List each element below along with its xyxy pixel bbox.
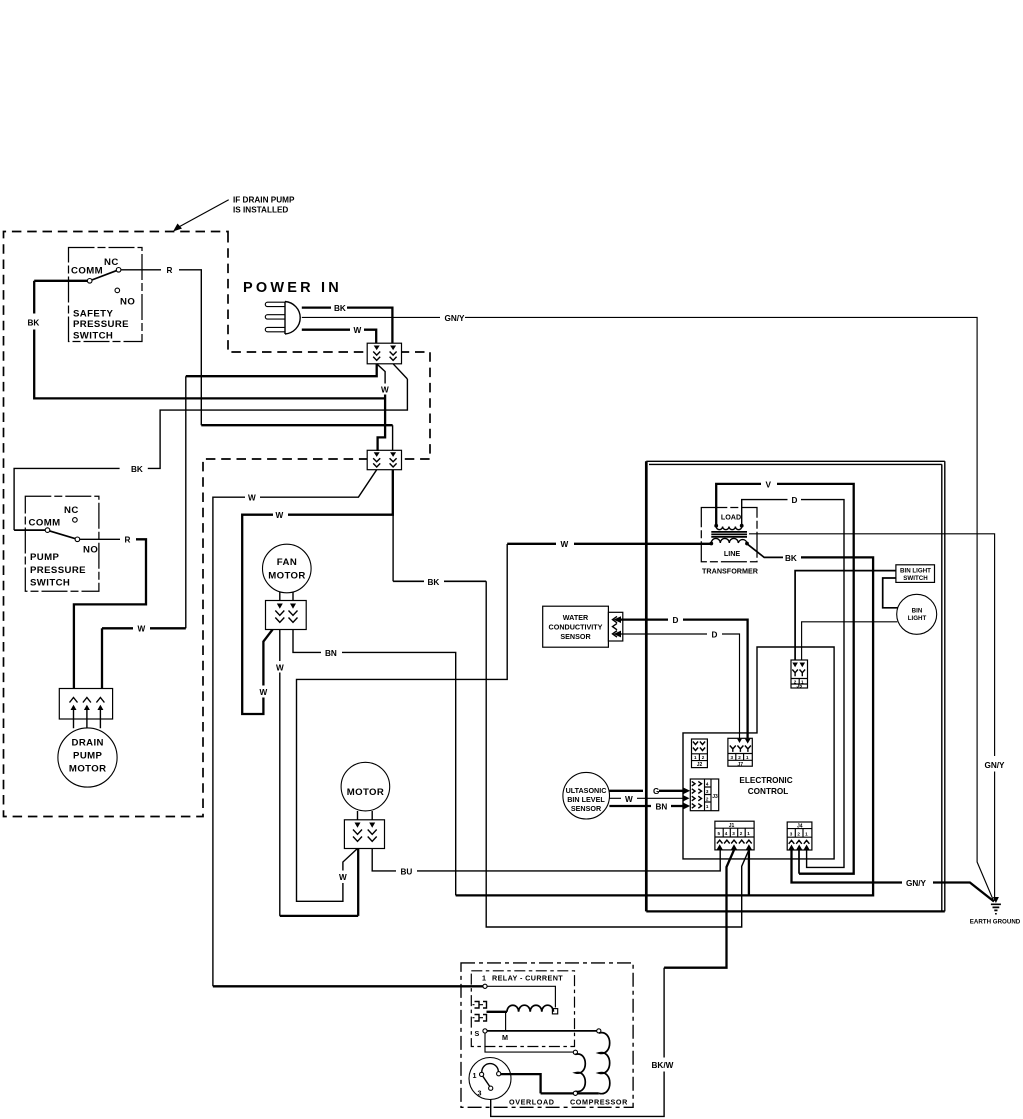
svg-text:R: R bbox=[167, 266, 173, 275]
svg-text:SWITCH: SWITCH bbox=[30, 578, 70, 589]
drain pump motor M1 bbox=[58, 728, 117, 787]
svg-text:2: 2 bbox=[740, 831, 743, 836]
svg-text:BU: BU bbox=[401, 867, 413, 876]
svg-text:BK: BK bbox=[131, 465, 143, 474]
svg-text:W: W bbox=[260, 688, 268, 697]
svg-text:PRESSURE: PRESSURE bbox=[73, 319, 129, 330]
pump pressure switch contacts bbox=[29, 505, 99, 556]
motor M3 bbox=[341, 762, 390, 811]
svg-text:J1: J1 bbox=[729, 823, 735, 829]
wire: overload to compressor common bbox=[541, 1092, 599, 1094]
relay contacts bbox=[473, 1002, 487, 1022]
wire W label between CN1 and junction bbox=[377, 364, 389, 451]
svg-text:BN: BN bbox=[325, 649, 337, 658]
svg-text:BN: BN bbox=[656, 802, 668, 811]
svg-text:FAN: FAN bbox=[277, 557, 297, 568]
pump pressure switch SW2 box bbox=[25, 496, 99, 591]
wire BK: plug to CN1 right pin bbox=[302, 304, 393, 343]
svg-text:GN/Y: GN/Y bbox=[985, 761, 1006, 770]
svg-text:1: 1 bbox=[694, 755, 697, 760]
svg-text:SWITCH: SWITCH bbox=[903, 575, 928, 582]
dashed enclosure: drain pump option boundary bbox=[4, 232, 431, 817]
svg-text:NC: NC bbox=[104, 257, 119, 268]
connector J5 bbox=[791, 660, 808, 690]
note: IF DRAIN PUMP IS INSTALLED bbox=[173, 196, 295, 232]
svg-text:2: 2 bbox=[706, 797, 709, 802]
svg-text:NO: NO bbox=[83, 545, 98, 556]
wire BK/BN thick: bottom run to transformer line bbox=[456, 544, 873, 896]
svg-text:BK: BK bbox=[28, 319, 40, 328]
svg-text:M: M bbox=[502, 1033, 508, 1042]
svg-text:1: 1 bbox=[706, 804, 709, 809]
connector J7 bbox=[728, 738, 752, 768]
wire: S terminal to compressor M bbox=[485, 1033, 573, 1052]
wire G: ultrasonic to J3 bbox=[609, 787, 690, 796]
connector CN3 drain pump bbox=[59, 689, 112, 720]
wire: J1 pin1 to neutral run bbox=[748, 850, 750, 896]
svg-text:2: 2 bbox=[702, 755, 705, 760]
svg-text:3: 3 bbox=[706, 789, 709, 794]
svg-text:S: S bbox=[475, 1029, 480, 1038]
wire W: motor left pin straight down link bbox=[357, 849, 359, 916]
wire V: transformer load to J4 pin2 bbox=[716, 480, 854, 873]
wire GN/Y: transformer shield to earth ground bbox=[749, 534, 1005, 901]
wire W: fan left pin down to motor link bbox=[276, 630, 358, 916]
electronic control inner board outline bbox=[683, 647, 834, 859]
overload OL1 bbox=[469, 1058, 511, 1100]
wire W: drain branch horizontal bbox=[102, 625, 186, 689]
connector on water sensor bbox=[608, 612, 622, 641]
safety pressure switch SW1 box bbox=[69, 248, 143, 342]
svg-text:4: 4 bbox=[706, 782, 709, 787]
wire GN/Y: J4 pin3 to earth ground bbox=[792, 850, 995, 902]
svg-text:GN/Y: GN/Y bbox=[906, 879, 927, 888]
wire GN/Y: plug to earth ground bbox=[302, 314, 994, 902]
connector J2 bbox=[692, 739, 708, 768]
svg-text:J7: J7 bbox=[738, 762, 744, 768]
svg-text:SWITCH: SWITCH bbox=[73, 331, 113, 342]
wire W: motor left pin diagonal to transformer line run bbox=[297, 544, 508, 901]
connector CN2 bbox=[367, 450, 401, 469]
connector CN5 motor bbox=[344, 820, 384, 849]
svg-text:W: W bbox=[381, 385, 389, 394]
svg-text:ELECTRONIC: ELECTRONIC bbox=[739, 776, 792, 785]
svg-text:2: 2 bbox=[797, 831, 800, 836]
connector J4 bbox=[787, 822, 812, 850]
wire BN: fan right pin to control box bbox=[293, 630, 456, 896]
svg-text:G: G bbox=[653, 787, 659, 796]
svg-text:5: 5 bbox=[718, 831, 721, 836]
svg-text:NC: NC bbox=[64, 505, 79, 516]
wire BK: CN1 right pin diagonal bbox=[393, 364, 407, 379]
connector CN4 fan bbox=[266, 601, 307, 630]
svg-text:BK: BK bbox=[785, 554, 797, 563]
wire BU: motor right pin to J1 pin5 bbox=[372, 849, 720, 877]
svg-text:COMPRESSOR: COMPRESSOR bbox=[570, 1098, 628, 1107]
svg-text:W: W bbox=[276, 511, 284, 520]
wire W: to transformer LINE bbox=[507, 540, 711, 549]
svg-text:1: 1 bbox=[482, 974, 486, 983]
bin light DS1 bbox=[897, 594, 937, 634]
wire D thick: control to water sensor bbox=[614, 616, 748, 738]
svg-text:1: 1 bbox=[473, 1071, 477, 1080]
svg-text:DRAIN: DRAIN bbox=[72, 738, 104, 749]
svg-text:EARTH GROUND: EARTH GROUND bbox=[970, 919, 1021, 926]
svg-text:CONTROL: CONTROL bbox=[748, 787, 788, 796]
svg-text:3: 3 bbox=[478, 1088, 482, 1097]
wire W: CN2 left pin to long white run bbox=[213, 470, 377, 987]
wire: BK into pump COMM bbox=[14, 529, 45, 531]
wires: fan motor to connector CN4 bbox=[280, 592, 293, 601]
svg-text:PUMP: PUMP bbox=[73, 751, 103, 762]
svg-text:COMM: COMM bbox=[71, 266, 103, 277]
svg-text:W: W bbox=[561, 540, 569, 549]
svg-text:LOAD: LOAD bbox=[721, 513, 741, 522]
relay box bbox=[471, 971, 574, 1047]
svg-text:BK: BK bbox=[428, 578, 440, 587]
svg-text:D: D bbox=[673, 616, 679, 625]
wire BK: safety switch down-left bbox=[28, 281, 386, 399]
svg-text:J4: J4 bbox=[797, 824, 803, 830]
svg-text:OVERLOAD: OVERLOAD bbox=[509, 1098, 555, 1107]
svg-text:SAFETY: SAFETY bbox=[73, 309, 113, 320]
svg-text:W: W bbox=[339, 873, 347, 882]
wire BK: CN2 right pin down to control bbox=[393, 470, 749, 927]
relay M tap bbox=[502, 1012, 508, 1042]
svg-text:V: V bbox=[766, 480, 772, 489]
compressor enclosure dash-dot box bbox=[461, 963, 633, 1107]
svg-text:2: 2 bbox=[738, 755, 741, 760]
svg-text:W: W bbox=[138, 625, 146, 634]
relay coil L1 bbox=[507, 1005, 558, 1014]
svg-text:J3: J3 bbox=[712, 794, 718, 800]
wire W: long feed into relay terminal 1 bbox=[213, 985, 483, 987]
svg-text:W: W bbox=[248, 494, 256, 503]
svg-text:WATER: WATER bbox=[563, 613, 589, 622]
svg-text:NO: NO bbox=[120, 296, 135, 307]
wire: S terminal to compressor S bbox=[487, 1030, 597, 1032]
svg-text:GN/Y: GN/Y bbox=[445, 314, 466, 323]
transformer T1 windings bbox=[709, 524, 749, 546]
svg-text:BIN: BIN bbox=[912, 608, 923, 615]
wire W: plug to CN1 left pin bbox=[302, 326, 376, 343]
wires: motor M3 to connector CN5 bbox=[358, 811, 373, 820]
wire R: pump NO to drain pump connector pin1 bbox=[74, 536, 146, 689]
transformer T1 dashed box bbox=[701, 508, 757, 562]
svg-text:D: D bbox=[792, 496, 798, 505]
svg-text:IF DRAIN PUMP: IF DRAIN PUMP bbox=[233, 196, 295, 205]
svg-text:J5: J5 bbox=[797, 684, 803, 690]
svg-text:R: R bbox=[125, 536, 131, 545]
wire: overload to compressor bbox=[501, 1074, 541, 1093]
electronic control outer box bbox=[646, 461, 945, 911]
svg-text:BIN LIGHT: BIN LIGHT bbox=[900, 568, 931, 575]
bin light switch SW3 bbox=[896, 565, 935, 583]
safety pressure switch contacts bbox=[71, 257, 135, 307]
svg-text:BK: BK bbox=[334, 304, 346, 313]
wires: connector CN3 to drain pump motor bbox=[74, 719, 101, 728]
wire: bin light switch to bin light bbox=[883, 578, 898, 608]
svg-text:3: 3 bbox=[732, 831, 735, 836]
relay terminal 1 bbox=[483, 984, 487, 988]
svg-text:TRANSFORMER: TRANSFORMER bbox=[702, 567, 759, 576]
node: BK junction to pump switch bbox=[148, 379, 408, 468]
safety pressure switch label bbox=[73, 309, 129, 342]
svg-text:LINE: LINE bbox=[724, 549, 741, 558]
wire BN: ultrasonic to J3 bbox=[609, 802, 690, 811]
wire D thin: control to water sensor bbox=[614, 630, 740, 738]
svg-text:D: D bbox=[712, 630, 718, 639]
svg-text:4: 4 bbox=[725, 831, 728, 836]
svg-text:3: 3 bbox=[790, 831, 793, 836]
compressor windings bbox=[573, 1029, 610, 1096]
wire W: ultrasonic to J3 bbox=[609, 795, 689, 804]
wire W: CN1 left pin branch to drain pump circuit bbox=[186, 364, 377, 376]
svg-text:1: 1 bbox=[747, 831, 750, 836]
wire: bin light switch to J5 pin2 bbox=[795, 571, 896, 663]
svg-text:BK/W: BK/W bbox=[652, 1061, 674, 1070]
wire: bin light to J5 pin1 bbox=[802, 622, 898, 663]
svg-text:W: W bbox=[276, 663, 284, 672]
svg-text:MOTOR: MOTOR bbox=[69, 764, 107, 775]
svg-text:MOTOR: MOTOR bbox=[268, 571, 306, 582]
svg-text:MOTOR: MOTOR bbox=[347, 787, 385, 798]
water conductivity sensor U2 bbox=[543, 606, 609, 647]
connector J1 bbox=[715, 821, 754, 850]
svg-text:PRESSURE: PRESSURE bbox=[30, 565, 86, 576]
wire BK/W: J1 pin3 to overload bbox=[491, 850, 734, 1117]
svg-text:LIGHT: LIGHT bbox=[908, 615, 927, 622]
svg-text:IS INSTALLED: IS INSTALLED bbox=[233, 206, 288, 215]
wire: safety COMM to BK vertical bbox=[34, 280, 87, 282]
wire D: transformer load to J4 pin1 bbox=[742, 496, 844, 867]
earth ground symbol bbox=[970, 897, 1021, 926]
pump pressure switch label bbox=[30, 552, 86, 589]
svg-text:1: 1 bbox=[746, 755, 749, 760]
svg-text:POWER IN: POWER IN bbox=[243, 280, 342, 296]
svg-text:3: 3 bbox=[731, 755, 734, 760]
connector CN1 bbox=[367, 343, 401, 364]
svg-text:W: W bbox=[354, 326, 362, 335]
svg-text:SENSOR: SENSOR bbox=[560, 632, 591, 641]
connector J3 ultrasonic bbox=[690, 779, 718, 811]
svg-text:W: W bbox=[625, 795, 633, 804]
svg-text:CONDUCTIVITY: CONDUCTIVITY bbox=[549, 623, 603, 632]
svg-text:ULTASONIC: ULTASONIC bbox=[566, 786, 607, 795]
wire R: safety NC to connector CN2 bbox=[121, 266, 393, 451]
wire W thick: CN2 right pin to fan motor bbox=[242, 470, 393, 714]
wire: relay terminal 1 to coil bbox=[487, 986, 555, 1007]
fan motor M2 bbox=[263, 544, 312, 593]
svg-text:J2: J2 bbox=[697, 762, 703, 768]
svg-text:SENSOR: SENSOR bbox=[571, 804, 602, 813]
svg-text:COMM: COMM bbox=[29, 517, 61, 528]
svg-text:BIN LEVEL: BIN LEVEL bbox=[567, 795, 605, 804]
relay terminal S bbox=[475, 1029, 488, 1038]
power plug P1 bbox=[265, 302, 300, 335]
wire: contacts to coil bbox=[487, 1011, 508, 1013]
ultrasonic bin level sensor U3 bbox=[563, 772, 610, 819]
svg-text:1: 1 bbox=[805, 831, 808, 836]
svg-text:RELAY - CURRENT: RELAY - CURRENT bbox=[492, 974, 563, 983]
svg-text:PUMP: PUMP bbox=[30, 552, 60, 563]
